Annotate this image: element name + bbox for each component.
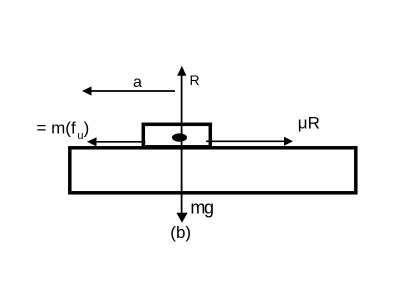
svg-text:u: u xyxy=(77,130,83,142)
svg-text:a: a xyxy=(133,74,142,91)
svg-text:(b): (b) xyxy=(170,223,191,242)
svg-text:): ) xyxy=(84,119,90,138)
svg-text:= m(f: = m(f xyxy=(37,119,76,138)
svg-text:μR: μR xyxy=(298,114,320,133)
svg-text:R: R xyxy=(190,72,200,88)
svg-text:mg: mg xyxy=(190,197,213,217)
